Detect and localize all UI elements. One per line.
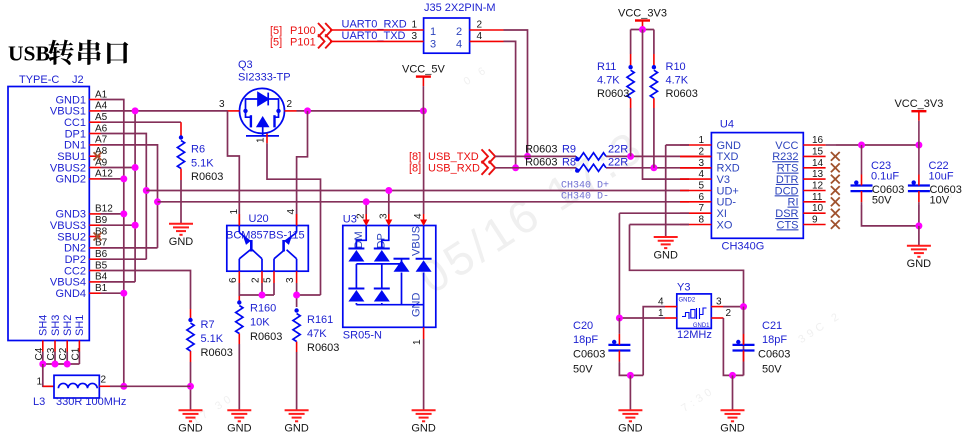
- wire: [101, 121, 182, 123]
- svg-text:R8: R8: [562, 157, 576, 169]
- junction: [64, 361, 71, 368]
- wire: [158, 201, 690, 203]
- svg-text:3: 3: [285, 277, 296, 283]
- svg-text:UART0_RXD: UART0_RXD: [342, 19, 407, 31]
- svg-text:0.1uF: 0.1uF: [871, 171, 899, 183]
- resistor R160: [236, 306, 243, 334]
- wire: [630, 225, 744, 376]
- svg-text:P100: P100: [290, 25, 316, 37]
- wire: [101, 178, 124, 180]
- diode: [374, 248, 390, 250]
- svg-text:VCC_3V3: VCC_3V3: [618, 7, 667, 19]
- svg-text:GND2: GND2: [679, 298, 696, 304]
- svg-text:RTS: RTS: [777, 163, 799, 175]
- svg-text:CH340 D+: CH340 D+: [561, 180, 609, 191]
- wire: [630, 30, 632, 55]
- wire: [101, 145, 158, 248]
- svg-text:L3: L3: [33, 396, 45, 408]
- svg-text:R0603: R0603: [307, 342, 339, 354]
- junction: [616, 315, 623, 322]
- svg-text:4.7K: 4.7K: [666, 75, 689, 87]
- svg-text:V3: V3: [717, 174, 730, 186]
- svg-text:GND: GND: [411, 423, 436, 435]
- wire: [78, 352, 80, 365]
- junction: [259, 292, 266, 299]
- wire: [653, 108, 655, 168]
- svg-text:C0603: C0603: [573, 349, 605, 361]
- junction: [420, 107, 427, 114]
- svg-text:[5]: [5]: [270, 36, 282, 48]
- svg-text:R9: R9: [562, 144, 576, 156]
- wire: [101, 134, 147, 260]
- svg-text:18pF: 18pF: [762, 334, 787, 346]
- connector J2 TYPE-C: [8, 87, 89, 341]
- junction: [363, 198, 370, 205]
- svg-text:CH340 D-: CH340 D-: [561, 192, 609, 203]
- pin 2 Y3: [711, 317, 723, 319]
- svg-text:DSR: DSR: [775, 208, 798, 220]
- svg-text:SI2333-TP: SI2333-TP: [238, 72, 291, 84]
- no-connect SBU1: [94, 152, 102, 160]
- svg-text:7:30: 7:30: [679, 384, 717, 414]
- junction: [120, 210, 127, 217]
- ground: [618, 410, 642, 421]
- wire: [918, 226, 920, 246]
- svg-text:6: 6: [228, 277, 239, 283]
- svg-text:DCD: DCD: [775, 185, 799, 197]
- svg-text:5.1K: 5.1K: [191, 157, 214, 169]
- no-connect SBU2: [94, 233, 102, 241]
- wire: [643, 307, 665, 376]
- svg-text:VCC: VCC: [775, 140, 798, 152]
- resistor R6: [177, 141, 184, 169]
- svg-text:SH1: SH1: [74, 315, 86, 336]
- ground: [227, 410, 251, 421]
- svg-text:0 6: 0 6: [462, 63, 491, 88]
- no-connect U4 pin 10: [831, 209, 840, 218]
- no-connect U4 pin 9: [831, 220, 840, 229]
- pin 4 U20: [296, 214, 298, 226]
- pin 5 U20: [273, 271, 275, 283]
- wire: [630, 108, 632, 156]
- svg-text:GND1: GND1: [693, 323, 710, 329]
- wire: [666, 144, 689, 146]
- wire: [495, 167, 576, 169]
- junction: [627, 372, 634, 379]
- svg-text:GND1: GND1: [55, 94, 86, 106]
- diode: [348, 248, 364, 250]
- wire: [267, 143, 321, 295]
- svg-text:50V: 50V: [872, 194, 892, 206]
- svg-text:2: 2: [456, 26, 462, 38]
- svg-text:DP1: DP1: [65, 128, 86, 140]
- wire: [630, 224, 690, 226]
- svg-text:R0603: R0603: [525, 157, 557, 169]
- wire: [146, 190, 689, 192]
- pin 3 Y3: [711, 306, 723, 308]
- svg-text:22R: 22R: [608, 144, 628, 156]
- wire: [388, 191, 390, 215]
- wire: [836, 144, 919, 146]
- wire: [423, 111, 425, 214]
- svg-text:GND: GND: [227, 423, 252, 435]
- wire: [618, 213, 620, 318]
- wire: [504, 30, 528, 156]
- wire: [124, 385, 191, 387]
- svg-text:R0603: R0603: [525, 144, 557, 156]
- wire: [665, 145, 667, 237]
- wire L3 to GND net: [99, 385, 110, 387]
- svg-text:R160: R160: [250, 302, 276, 314]
- wire: [66, 352, 68, 365]
- junction: [915, 142, 922, 149]
- svg-text:4.7K: 4.7K: [597, 75, 620, 87]
- resistor R11: [627, 70, 634, 98]
- svg-text:2: 2: [101, 374, 107, 385]
- junction: [143, 187, 150, 194]
- svg-text:2: 2: [356, 213, 367, 219]
- pin 2 U20: [261, 271, 263, 283]
- wire: [296, 283, 298, 307]
- connector J35 2X2PIN-M: [424, 18, 470, 53]
- wire: [54, 352, 56, 365]
- wire: [273, 283, 275, 295]
- wire: [239, 294, 274, 296]
- diode: [416, 258, 432, 260]
- wire: [606, 167, 711, 169]
- svg-text:18pF: 18pF: [573, 334, 598, 346]
- svg-text:GND: GND: [717, 140, 742, 152]
- junction: [293, 292, 300, 299]
- svg-text:R0603: R0603: [201, 347, 233, 359]
- no-connect U4 pin 12: [831, 186, 840, 195]
- inductor L3: [54, 375, 99, 398]
- svg-text:Y3: Y3: [677, 282, 690, 294]
- svg-text:5: 5: [263, 277, 274, 283]
- junction: [858, 142, 865, 149]
- svg-text:SBU1: SBU1: [57, 151, 86, 163]
- svg-text:R11: R11: [597, 61, 616, 73]
- ground: [654, 237, 678, 248]
- junction: [650, 164, 657, 171]
- transistor U20 BCM857BS-115: [227, 226, 308, 272]
- wire: [190, 362, 192, 410]
- junction: [120, 383, 127, 390]
- wire: [228, 111, 240, 226]
- svg-text:CC2: CC2: [64, 265, 86, 277]
- wire: [504, 41, 516, 167]
- no-connect U4 pin 11: [831, 197, 840, 206]
- pin 1 U3: [423, 327, 425, 339]
- svg-text:C20: C20: [573, 320, 593, 332]
- svg-text:CTS: CTS: [777, 219, 799, 231]
- svg-text:USB: USB: [8, 42, 50, 66]
- diode: [374, 288, 390, 290]
- svg-text:J2: J2: [72, 74, 84, 86]
- svg-text:[8]: [8]: [409, 151, 421, 163]
- TVS diode array U3 SR05-N: [343, 226, 436, 328]
- svg-text:GND: GND: [169, 236, 194, 248]
- svg-text:4: 4: [477, 31, 483, 42]
- pin 3 Q3: [228, 110, 240, 112]
- svg-text:R0603: R0603: [250, 331, 282, 343]
- svg-text:R10: R10: [666, 61, 686, 73]
- wire: [43, 364, 54, 386]
- svg-text:3: 3: [378, 213, 389, 219]
- junction: [132, 222, 139, 229]
- svg-text:4: 4: [286, 209, 297, 215]
- svg-text:U20: U20: [249, 213, 269, 225]
- svg-text:C0603: C0603: [758, 349, 790, 361]
- svg-text:VBUS1: VBUS1: [50, 106, 86, 118]
- svg-text:DN2: DN2: [64, 243, 86, 255]
- wire: [297, 111, 308, 226]
- wire: [101, 258, 147, 260]
- pin 6 U20: [238, 271, 240, 283]
- svg-text:10V: 10V: [930, 194, 950, 206]
- svg-text:R161: R161: [307, 314, 333, 326]
- junction: [524, 153, 531, 160]
- capacitor C22: [908, 186, 930, 192]
- svg-text:UD+: UD+: [717, 185, 739, 197]
- wire: [42, 352, 44, 365]
- wire: [43, 363, 80, 365]
- svg-text:GND: GND: [907, 258, 932, 270]
- svg-text:SH2: SH2: [62, 315, 74, 336]
- svg-text:DP2: DP2: [65, 254, 86, 266]
- junction: [639, 26, 646, 33]
- svg-text:1: 1: [412, 339, 423, 345]
- pin 3 U20: [296, 271, 298, 283]
- svg-text:3: 3: [411, 31, 417, 42]
- svg-text:2: 2: [287, 99, 293, 110]
- svg-text:TYPE-C: TYPE-C: [19, 74, 59, 86]
- svg-text:GND4: GND4: [55, 288, 86, 300]
- wire: [619, 363, 643, 375]
- wire: [495, 155, 576, 157]
- pin 2 Q3: [285, 110, 297, 112]
- svg-text:2: 2: [477, 20, 483, 31]
- wire: [723, 306, 744, 308]
- svg-text:SR05-N: SR05-N: [343, 330, 382, 342]
- svg-text:DN1: DN1: [64, 140, 86, 152]
- wire: [261, 283, 263, 295]
- svg-text:3: 3: [430, 39, 436, 51]
- wire: [110, 385, 124, 387]
- ground: [285, 410, 309, 421]
- wire: [862, 205, 919, 226]
- svg-text:C21: C21: [762, 320, 782, 332]
- svg-text:3: 3: [716, 296, 722, 307]
- crystal glyph: [682, 308, 707, 319]
- svg-text:22R: 22R: [608, 157, 628, 169]
- svg-text:1: 1: [36, 376, 42, 387]
- svg-text:GND: GND: [618, 423, 643, 435]
- svg-text:RI: RI: [788, 197, 799, 209]
- junction: [385, 187, 392, 194]
- resistor R8: [576, 164, 606, 171]
- watermark: [190, 63, 958, 427]
- svg-text:R0603: R0603: [191, 171, 223, 183]
- junction: [740, 303, 747, 310]
- junction: [729, 372, 736, 379]
- svg-text:GND: GND: [178, 423, 203, 435]
- ground: [169, 224, 193, 235]
- wire: [101, 167, 136, 169]
- wire J35 pin4: [470, 40, 504, 42]
- resistor R7: [187, 323, 194, 351]
- svg-text:39C 2: 39C 2: [796, 309, 844, 346]
- svg-text:XI: XI: [717, 208, 727, 220]
- svg-text:330R 100MHz: 330R 100MHz: [56, 396, 126, 408]
- wire: [723, 318, 743, 375]
- wire: [743, 363, 745, 375]
- wire: [297, 110, 424, 112]
- svg-text:1: 1: [229, 209, 240, 215]
- svg-text:10K: 10K: [250, 317, 270, 329]
- wire: [101, 281, 136, 283]
- junction: [132, 107, 139, 114]
- svg-text:[5]: [5]: [270, 25, 282, 37]
- svg-text:SH3: SH3: [50, 315, 62, 336]
- svg-text:GND2: GND2: [55, 174, 86, 186]
- svg-text:GND: GND: [284, 423, 309, 435]
- svg-text:UD-: UD-: [717, 197, 737, 209]
- junction: [187, 383, 194, 390]
- wire: [101, 292, 124, 294]
- wire: [101, 271, 191, 310]
- pin 1 Y3: [665, 317, 677, 319]
- transistor Q3 SI2333-TP: [240, 88, 285, 135]
- svg-text:3: 3: [219, 99, 225, 110]
- svg-text:SH4: SH4: [38, 315, 50, 336]
- pin 1 U20: [238, 214, 240, 226]
- svg-text:1: 1: [256, 137, 267, 143]
- svg-text:GND3: GND3: [55, 209, 86, 221]
- junction: [512, 164, 519, 171]
- svg-text:DTR: DTR: [776, 174, 799, 186]
- svg-text:VBUS4: VBUS4: [50, 277, 86, 289]
- junction: [304, 107, 311, 114]
- wire: [134, 111, 136, 282]
- svg-text:Q3: Q3: [238, 59, 253, 71]
- svg-text:VBUS2: VBUS2: [50, 162, 86, 174]
- svg-text:R6: R6: [191, 144, 205, 156]
- junction: [52, 361, 59, 368]
- svg-text:P101: P101: [290, 36, 316, 48]
- wire: [365, 202, 367, 214]
- svg-text:J35 2X2PIN-M: J35 2X2PIN-M: [424, 2, 496, 14]
- resistor R161: [293, 314, 300, 342]
- svg-text:10uF: 10uF: [929, 171, 954, 183]
- capacitor C21: [733, 345, 755, 351]
- wire: [643, 30, 690, 180]
- svg-text:50V: 50V: [762, 363, 782, 375]
- junction: [627, 153, 634, 160]
- junction: [154, 198, 161, 205]
- wire: [101, 110, 228, 112]
- svg-text:50V: 50V: [573, 363, 593, 375]
- svg-text:12MHz: 12MHz: [677, 329, 712, 341]
- pin 1 Q3: [266, 134, 268, 144]
- svg-text:[8]: [8]: [409, 163, 421, 175]
- svg-text:USB_TXD: USB_TXD: [428, 151, 479, 163]
- wire: [101, 213, 124, 215]
- capacitor C20: [608, 345, 630, 351]
- svg-text:USB_RXD: USB_RXD: [428, 163, 480, 175]
- wire: [180, 180, 182, 224]
- ground: [412, 410, 436, 421]
- wire: [238, 283, 240, 296]
- wire: [619, 317, 665, 319]
- resistor R9: [576, 153, 606, 160]
- junction: [39, 361, 46, 368]
- diode: [348, 288, 364, 290]
- svg-text:R0603: R0603: [597, 88, 629, 100]
- no-connect U4 pin 14: [831, 163, 840, 172]
- no-connect U4 pin 13: [831, 175, 840, 184]
- wire VCC pin16 rail: [826, 144, 836, 146]
- wire J35 pin2: [470, 29, 504, 31]
- wire: [101, 100, 124, 387]
- wire: [296, 352, 298, 410]
- ground: [721, 410, 745, 421]
- wire: [606, 155, 711, 157]
- svg-text:2: 2: [251, 277, 262, 283]
- svg-text:1: 1: [430, 26, 436, 38]
- wire: [619, 212, 689, 214]
- svg-text:UART0_TXD: UART0_TXD: [342, 30, 406, 42]
- svg-text:R0603: R0603: [666, 88, 698, 100]
- junction: [915, 222, 922, 229]
- svg-text:GND: GND: [653, 249, 678, 261]
- svg-text:47K: 47K: [307, 328, 327, 340]
- no-connect U4 pin 15: [831, 152, 840, 161]
- svg-text:VCC_5V: VCC_5V: [402, 63, 445, 75]
- svg-text:VBUS3: VBUS3: [50, 220, 86, 232]
- svg-text:TXD: TXD: [717, 151, 739, 163]
- junction: [120, 175, 127, 182]
- svg-text:RXD: RXD: [717, 163, 740, 175]
- svg-text:CH340G: CH340G: [722, 241, 765, 253]
- wire: [423, 339, 425, 410]
- capacitor C23: [851, 186, 873, 192]
- svg-text:R232: R232: [772, 151, 798, 163]
- ground: [179, 410, 203, 421]
- resistor R10: [650, 70, 657, 98]
- wire: [653, 30, 655, 55]
- wire: [101, 247, 158, 249]
- svg-text:VCC_3V3: VCC_3V3: [894, 98, 943, 110]
- wire: [238, 344, 240, 410]
- svg-text:SBU2: SBU2: [57, 231, 86, 243]
- junction: [132, 164, 139, 171]
- wire: [631, 29, 654, 31]
- wire: [629, 375, 631, 410]
- svg-text:VBUS: VBUS: [411, 226, 423, 256]
- svg-text:R7: R7: [201, 319, 215, 331]
- svg-text:U4: U4: [720, 118, 734, 130]
- ground: [907, 246, 931, 257]
- svg-text:4: 4: [456, 39, 462, 51]
- diode: [394, 258, 410, 260]
- svg-text:GND: GND: [720, 423, 745, 435]
- junction: [120, 290, 127, 297]
- junction: [132, 222, 139, 229]
- svg-text:2: 2: [726, 308, 732, 319]
- svg-text:1: 1: [411, 20, 417, 31]
- IC U4 CH340G: [711, 133, 803, 239]
